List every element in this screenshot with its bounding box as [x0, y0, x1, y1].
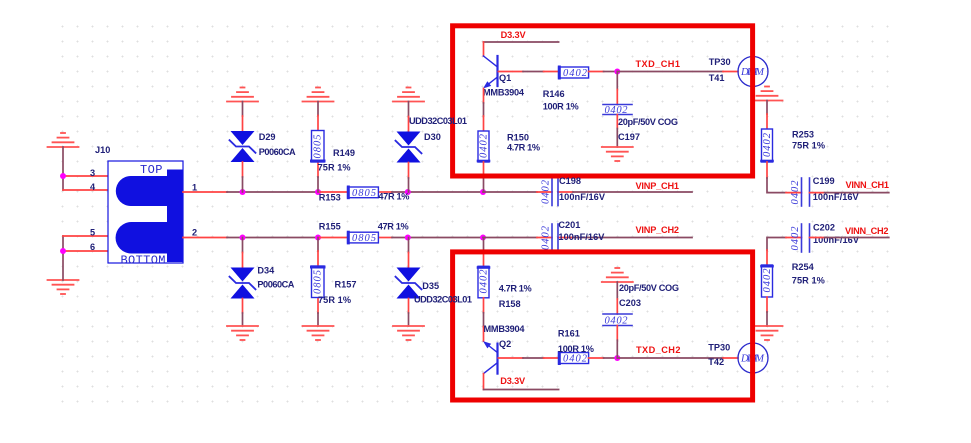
svg-text:R253: R253 [792, 130, 814, 140]
svg-text:0402: 0402 [479, 269, 490, 294]
svg-text:R254: R254 [792, 262, 815, 272]
ground below R254 [752, 326, 783, 340]
wire R158 to Q2 emitter [483, 298, 485, 341]
resistor R149 body [312, 131, 325, 163]
transistor Q1 [483, 56, 498, 89]
svg-text:20pF/50V COG: 20pF/50V COG [619, 283, 679, 293]
wire pin4 stub [63, 189, 108, 191]
svg-text:R149: R149 [333, 148, 355, 158]
capacitor C197 [603, 105, 632, 117]
svg-text:47R 1%: 47R 1% [378, 221, 409, 231]
wire D29 to net1 [242, 162, 244, 177]
svg-text:C199: C199 [813, 176, 835, 186]
power rail D3.3V bottom [484, 374, 559, 390]
wire stem node to G2 [62, 251, 64, 280]
svg-text:0402: 0402 [541, 225, 552, 250]
diode D29 [230, 131, 256, 162]
ground G2 bottom-left [48, 280, 79, 294]
svg-text:TP30: TP30 [709, 57, 731, 67]
node junction pins 3/4 [60, 173, 66, 179]
svg-text:2: 2 [192, 228, 197, 238]
wire net2 to R158 [483, 238, 485, 267]
svg-text:20pF/50V COG: 20pF/50V COG [618, 117, 678, 127]
wire C201 left stub [537, 237, 552, 239]
wire net2 to D34 [242, 238, 244, 253]
wire net2 segment B [392, 237, 483, 239]
svg-text:VINP_CH1: VINP_CH1 [636, 181, 680, 191]
svg-text:VINN_CH1: VINN_CH1 [846, 180, 890, 190]
resistor R155 body [348, 232, 379, 244]
wire R146 to node TXD_CH1 [589, 71, 618, 73]
wire C198 right stub [558, 191, 573, 193]
wire ground to C203 [616, 282, 618, 314]
svg-text:TP30: TP30 [708, 343, 730, 353]
svg-text:0402: 0402 [479, 133, 490, 158]
svg-text:100nF/16V: 100nF/16V [559, 192, 606, 202]
capacitor C199 [790, 178, 810, 206]
capacitor C202 [790, 224, 810, 252]
diode D35 [396, 268, 422, 299]
svg-text:VINN_CH2: VINN_CH2 [845, 226, 889, 236]
wire R153 right stub [378, 191, 392, 193]
svg-text:R158: R158 [499, 299, 521, 309]
wire R161 to node TXD_CH2 [589, 357, 618, 359]
wire C203 to node [616, 326, 618, 359]
wire C198 left stub [537, 191, 552, 193]
node on net2 at D35 [405, 235, 411, 241]
resistor R146 body [559, 67, 589, 79]
wire elbow to pin4 [62, 176, 64, 190]
wire node to C197 [616, 72, 618, 105]
svg-text:R155: R155 [319, 221, 341, 231]
diode D30 [396, 132, 422, 163]
wire R155 left stub [320, 237, 348, 239]
svg-text:0402: 0402 [541, 179, 552, 204]
node on net2 at D34 [240, 235, 246, 241]
node TXD_CH1 [614, 69, 620, 75]
wire net2 segment A [227, 237, 320, 239]
svg-text:0402: 0402 [762, 132, 773, 157]
wire net1 segment B [392, 191, 483, 193]
ground above R253 [752, 87, 783, 101]
wire R150 to net1 [483, 162, 485, 192]
svg-text:P0060CA: P0060CA [257, 279, 294, 289]
wire R254 to ground [766, 297, 768, 326]
svg-text:R150: R150 [507, 133, 529, 143]
wire net2 to R157 [317, 238, 319, 252]
wire node to TP30 bottom [617, 357, 738, 359]
node on net2 at Q2 branch [480, 235, 486, 241]
svg-text:0402: 0402 [563, 354, 588, 365]
wire ground to D29 [242, 102, 244, 117]
svg-text:75R 1%: 75R 1% [792, 275, 825, 285]
svg-text:BOTTOM: BOTTOM [121, 254, 166, 268]
wire R153 left stub [320, 191, 348, 193]
test point TP30 T42 [738, 343, 768, 373]
wire D34 to ground [242, 299, 244, 314]
wire C202 to VINN_CH2 [810, 237, 889, 239]
wire net2 to D35 [408, 238, 410, 253]
wire C201 right stub [558, 237, 573, 239]
svg-text:Q2: Q2 [499, 339, 511, 349]
node on net1 at Q1 branch [480, 189, 486, 195]
wire Q1 emitter to R150 [483, 89, 485, 132]
highlight box 1 [453, 26, 753, 176]
svg-text:UDD32C03L01: UDD32C03L01 [414, 294, 472, 304]
resistor R157 body [312, 266, 325, 298]
wire net1 segment C [483, 191, 537, 193]
ground below D35 [393, 326, 424, 340]
wire ground to R149 [317, 102, 319, 116]
svg-text:100nF/16V: 100nF/16V [558, 232, 605, 242]
wire net VINP_CH2 [573, 237, 692, 239]
wire net2 segment C [483, 237, 537, 239]
resistor R150 body [478, 131, 490, 162]
node on net1 at D29 [240, 189, 246, 195]
svg-text:0805: 0805 [352, 188, 376, 199]
wire pin6 stub [63, 250, 108, 252]
resistor R254 body [762, 265, 774, 297]
wire R155 right stub [378, 237, 392, 239]
svg-text:D35: D35 [422, 281, 439, 291]
svg-text:TXD_CH2: TXD_CH2 [636, 345, 681, 355]
svg-text:1: 1 [192, 183, 197, 193]
svg-text:75R 1%: 75R 1% [318, 295, 351, 305]
resistor R253 body [762, 129, 774, 162]
node on net1 at D30 [405, 189, 411, 195]
svg-text:D30: D30 [424, 132, 441, 142]
svg-text:100R 1%: 100R 1% [543, 102, 579, 112]
wire pin1 stub [183, 191, 227, 193]
wire R253 to C199 [767, 162, 802, 193]
svg-text:C201: C201 [558, 220, 580, 230]
ground above C203 [602, 268, 633, 282]
svg-text:VINP_CH2: VINP_CH2 [636, 225, 680, 235]
node junction pins 5/6 [60, 248, 66, 254]
wire C199 to VINN_CH1 [810, 192, 889, 194]
ground below R157 [303, 326, 334, 340]
svg-text:0805: 0805 [352, 233, 376, 244]
ground above R149 [303, 88, 334, 102]
capacitor C198 [541, 178, 559, 206]
svg-text:D3.3V: D3.3V [501, 30, 527, 40]
svg-text:T42: T42 [708, 357, 724, 367]
wire D35 to ground [408, 299, 410, 314]
svg-text:0402: 0402 [605, 316, 629, 327]
svg-text:T41: T41 [709, 73, 725, 83]
wire ground to D30 [408, 102, 410, 117]
wire pin3 stub [63, 175, 108, 177]
svg-text:0402: 0402 [790, 180, 801, 205]
resistor R158 body [478, 266, 490, 298]
ground below C197 [602, 147, 633, 161]
test point TP30 T41 [738, 57, 768, 87]
wire node to TP30 top [617, 71, 738, 73]
wire D30 to net1 [408, 163, 410, 179]
wire pin5 stub [63, 235, 108, 237]
wire C202 to R254 elbow [767, 238, 802, 266]
highlight box 2 [453, 252, 753, 400]
wire stem G1 to node [62, 147, 64, 176]
svg-text:R161: R161 [558, 328, 580, 338]
node on net2 at R157 [315, 235, 321, 241]
wire C197 to ground [616, 115, 618, 148]
svg-text:D3.3V: D3.3V [500, 376, 526, 386]
connector J10 body [108, 161, 183, 263]
node on net1 at R149 [315, 189, 321, 195]
svg-text:4: 4 [90, 182, 96, 192]
svg-text:C198: C198 [559, 176, 581, 186]
wire R149 to net1 [317, 162, 319, 177]
svg-text:3: 3 [90, 168, 95, 178]
svg-text:D29: D29 [259, 132, 276, 142]
ground below D34 [227, 326, 258, 340]
svg-text:4.7R 1%: 4.7R 1% [507, 142, 540, 152]
svg-text:75R 1%: 75R 1% [318, 163, 351, 173]
wire net VINP_CH1 [573, 191, 692, 193]
svg-text:0402: 0402 [605, 105, 629, 116]
wire pin2 stub [183, 237, 227, 239]
node TXD_CH2 [614, 355, 620, 361]
capacitor C201 [541, 224, 559, 252]
ground G1 top-left [48, 133, 79, 147]
svg-text:4.7R 1%: 4.7R 1% [499, 284, 532, 294]
svg-text:C197: C197 [618, 132, 640, 142]
svg-text:C202: C202 [813, 223, 835, 233]
svg-text:47R 1%: 47R 1% [378, 192, 409, 202]
svg-text:C203: C203 [619, 298, 641, 308]
svg-text:0402: 0402 [790, 226, 801, 251]
resistor R153 body [348, 187, 379, 199]
svg-text:Q1: Q1 [499, 73, 511, 83]
wire Q2 base to R161 [498, 357, 558, 359]
wire ground to R253 [766, 101, 768, 130]
resistor R161 body [559, 353, 589, 365]
svg-text:MMB3904: MMB3904 [483, 87, 525, 97]
transistor Q2 [483, 341, 498, 374]
svg-text:0402: 0402 [563, 68, 588, 79]
power rail D3.3V top [484, 42, 559, 56]
svg-text:R157: R157 [335, 279, 357, 289]
wire R157 to ground [317, 298, 319, 313]
svg-text:D34: D34 [257, 265, 275, 275]
svg-text:P0060CA: P0060CA [259, 147, 296, 157]
svg-text:R153: R153 [319, 193, 341, 203]
svg-text:UDD32C03L01: UDD32C03L01 [409, 116, 467, 126]
svg-text:75R 1%: 75R 1% [792, 140, 825, 150]
svg-text:0805: 0805 [313, 135, 324, 159]
svg-text:J10: J10 [95, 145, 110, 155]
svg-text:MMB3904: MMB3904 [484, 324, 526, 334]
capacitor C203 [603, 314, 632, 327]
wire elbow to pin5 [62, 236, 64, 251]
svg-text:6: 6 [90, 242, 95, 252]
svg-text:0805: 0805 [313, 270, 324, 294]
svg-text:TXD_CH1: TXD_CH1 [636, 59, 681, 69]
svg-text:0402: 0402 [762, 268, 773, 293]
wire Q1 base to R146 [498, 71, 558, 73]
ground above D30 [393, 88, 424, 102]
ground above D29 [227, 88, 258, 102]
svg-text:TOP: TOP [140, 163, 163, 177]
svg-text:100nF/16V: 100nF/16V [813, 235, 860, 245]
svg-text:100R 1%: 100R 1% [558, 344, 594, 354]
svg-text:5: 5 [90, 228, 95, 238]
diode D34 [230, 268, 256, 299]
wire net1 segment A [227, 191, 320, 193]
svg-text:R146: R146 [543, 89, 565, 99]
